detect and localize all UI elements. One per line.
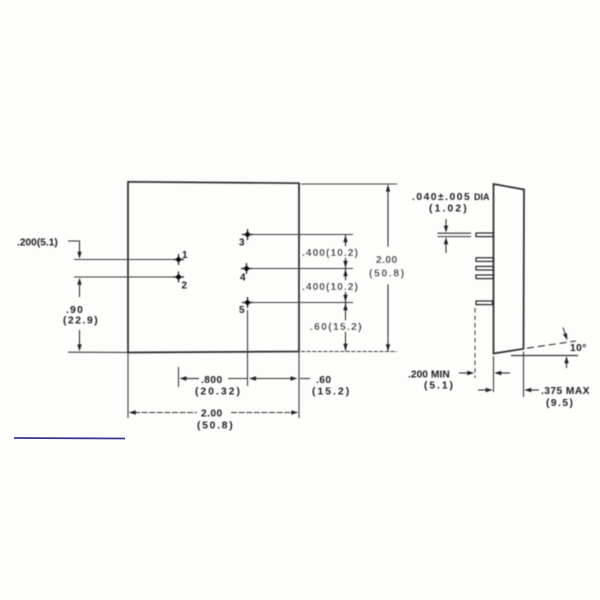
arrows at pin4 line xyxy=(343,261,347,268)
10 degree leader arrow xyxy=(563,328,567,338)
svg-text:(20.32): (20.32) xyxy=(195,387,242,398)
wire pin1 left extension line xyxy=(74,259,176,261)
wire pin5 right extension line xyxy=(251,302,353,304)
wire seating plane baseline xyxy=(511,355,578,357)
pin 5 xyxy=(239,297,253,316)
dimension text 2.00 (50.8) right xyxy=(369,247,406,284)
svg-text:(9.5): (9.5) xyxy=(546,398,574,409)
svg-text:(1.02): (1.02) xyxy=(429,204,469,215)
wire side body left edge lower extension xyxy=(493,356,495,392)
dimension .040 DIA vertical line + arrows xyxy=(444,219,448,253)
dimension text .60(15.2) xyxy=(309,321,363,334)
svg-text:(50.8): (50.8) xyxy=(369,269,406,280)
arrow down at bottom xyxy=(386,344,390,351)
arrow up at top xyxy=(386,185,390,192)
arrow up at pin3 line xyxy=(343,235,347,242)
dimension .200(5.1) down arrow xyxy=(77,252,81,259)
dimension 2.00 (50.8) vertical line xyxy=(387,185,389,351)
wire right edge bottom extension xyxy=(298,352,300,419)
angle tick below baseline xyxy=(566,359,568,368)
svg-text:2.00: 2.00 xyxy=(376,255,398,266)
svg-text:2.00: 2.00 xyxy=(201,409,223,420)
svg-text:.400(10.2): .400(10.2) xyxy=(302,248,359,259)
pin 3 xyxy=(239,229,253,249)
wire left edge bottom extension xyxy=(127,353,129,419)
dimension .200(5.1) leader xyxy=(68,241,80,253)
pin 2 xyxy=(173,272,188,292)
side view pin 3 xyxy=(476,233,494,237)
wire pin2 left extension line xyxy=(74,276,176,278)
dimension .90 up arrow xyxy=(77,278,81,285)
svg-text:.60(15.2): .60(15.2) xyxy=(310,322,363,333)
dimension .200 MIN (5.1) xyxy=(408,370,510,392)
wire pin1/2 column bottom extension xyxy=(178,367,180,387)
dimension 2.00 (50.8) bottom xyxy=(129,409,298,432)
svg-text:.90: .90 xyxy=(66,305,84,316)
svg-text:(22.9): (22.9) xyxy=(63,316,99,327)
svg-text:2: 2 xyxy=(182,281,188,292)
pin 1 xyxy=(173,250,188,265)
svg-text:3: 3 xyxy=(239,238,245,249)
front view package body xyxy=(128,182,299,353)
wire bottom-right extension line xyxy=(301,351,397,353)
side view pin 1 xyxy=(476,258,494,262)
dimension .90 down arrow xyxy=(77,344,81,351)
dimension .90 line upper xyxy=(79,281,81,297)
svg-text:.375 MAX: .375 MAX xyxy=(541,386,590,397)
svg-text:1: 1 xyxy=(182,250,188,261)
arrows at pin5 line xyxy=(343,295,347,302)
navy underline mark bottom-left xyxy=(14,437,125,440)
dimension text .400(10.2) lower xyxy=(301,281,359,294)
svg-text:(15.2): (15.2) xyxy=(312,387,351,398)
wire side body right edge lower extension xyxy=(523,352,525,398)
side view pin 2 xyxy=(476,275,494,279)
wire pin4 right extension line xyxy=(250,268,353,270)
svg-text:(50.8): (50.8) xyxy=(197,421,234,432)
wire dashed pin-tip extension line xyxy=(474,308,476,378)
svg-text:.040±.005: .040±.005 xyxy=(412,192,471,203)
wire bottom-left extension line xyxy=(68,351,128,353)
dimension .800 (20.32) xyxy=(180,375,248,398)
svg-text:(5.1): (5.1) xyxy=(424,381,455,392)
svg-text:.800: .800 xyxy=(201,375,223,386)
arrow down at bottom line xyxy=(343,344,347,351)
side view pin 3 DIA extension lines xyxy=(438,233,472,236)
pin 4 xyxy=(240,263,252,284)
wire top-right extension line xyxy=(301,183,397,185)
dimension .60 (15.2) bottom xyxy=(249,375,351,398)
side view pin 5 xyxy=(476,301,493,305)
dimension chain vertical line right of body xyxy=(345,235,347,351)
svg-text:.200 MIN: .200 MIN xyxy=(408,370,450,381)
dimension text .400(10.2) upper xyxy=(301,247,359,260)
dimension .375 MAX (9.5) xyxy=(478,386,590,409)
svg-text:5: 5 xyxy=(239,305,245,316)
svg-text:.60: .60 xyxy=(316,375,332,386)
side view pin 4 xyxy=(476,266,494,270)
side view package body xyxy=(494,184,525,354)
svg-text:.200(5.1): .200(5.1) xyxy=(17,238,58,249)
wire pin3 right extension line xyxy=(251,234,353,236)
svg-text:.400(10.2): .400(10.2) xyxy=(302,282,359,293)
svg-text:4: 4 xyxy=(240,273,246,284)
svg-text:DIA: DIA xyxy=(474,192,490,202)
svg-text:10°: 10° xyxy=(570,343,587,354)
dimension .90 line lower xyxy=(79,330,81,347)
wire pin3/4/5 column bottom extension xyxy=(247,310,249,386)
wire dashed 10 degree line xyxy=(527,341,576,348)
